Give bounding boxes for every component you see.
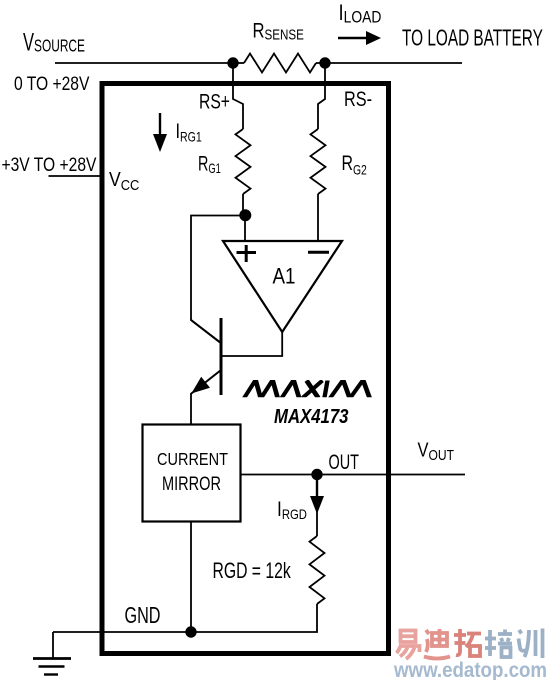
transistor Q1 (PNP pass transistor) [191,318,221,395]
svg-text:RS-: RS- [344,88,372,112]
svg-text:IRGD: IRGD [277,497,307,522]
node ground junction [185,626,196,637]
op-amp A1 [223,241,342,332]
node junction RSENSE left [227,57,238,68]
node OUT junction [311,469,322,480]
resistor RG2 [311,129,326,194]
resistor RG1 [236,129,251,194]
node junction RSENSE right [319,57,330,68]
wire RG2 to op-amp - input [317,194,319,240]
svg-text:RS+: RS+ [199,89,230,113]
wire pin RS+ lead [233,63,243,129]
wire pin RS- lead [318,63,325,129]
svg-text:0 TO +28V: 0 TO +28V [14,72,90,94]
wire ground rail to GND pin [53,631,191,633]
wire VCC input [49,175,103,177]
wire to load battery [325,62,462,64]
svg-text:MAX4173: MAX4173 [274,404,349,427]
wire node A to transistor emitter [191,216,245,343]
wire transistor to current mirror [190,393,192,424]
watermark chinese characters (easy-edatop training) [397,629,543,660]
svg-text:TO LOAD BATTERY: TO LOAD BATTERY [402,26,543,52]
svg-text:RSENSE: RSENSE [253,20,304,43]
svg-text:VSOURCE: VSOURCE [23,29,85,56]
IC outline MAX4173 [102,84,389,654]
wire current mirror to ground rail [190,521,192,632]
resistor RGD [310,536,325,604]
svg-text:GND: GND [125,603,161,628]
wire node A to op-amp + input [244,215,246,240]
svg-text:VCC: VCC [109,169,139,193]
svg-text:MIRROR: MIRROR [162,473,221,494]
ground symbol [33,632,71,675]
svg-text:www.edatop.com: www.edatop.com [393,659,547,680]
svg-text:A1: A1 [273,264,296,289]
svg-text:ILOAD: ILOAD [339,2,382,27]
wire op-amp output to transistor base [222,331,282,356]
svg-text:RG2: RG2 [342,152,367,178]
arrow IRGD [310,480,324,514]
op-amp + input symbol [237,245,257,262]
resistor RSENSE [244,54,316,73]
wire RGD to ground rail [191,604,317,632]
node A junction RG1 / op-amp + input [239,209,251,221]
svg-text:OUT: OUT [329,449,359,474]
current mirror block U1 [143,425,241,522]
svg-text:RG1: RG1 [198,151,221,177]
wire OUT node to RGD [316,475,318,537]
arrow ILOAD [338,31,381,45]
svg-text:VOUT: VOUT [418,438,454,464]
arrow IRG1 [153,113,167,152]
wire current mirror to OUT pin [241,474,466,476]
op-amp - input symbol [308,251,329,254]
svg-text:IRG1: IRG1 [176,120,202,145]
wire VSOURCE input [55,62,233,64]
svg-text:CURRENT: CURRENT [157,450,228,470]
svg-text:+3V TO +28V: +3V TO +28V [2,153,97,175]
svg-text:RGD = 12k: RGD = 12k [213,560,292,584]
